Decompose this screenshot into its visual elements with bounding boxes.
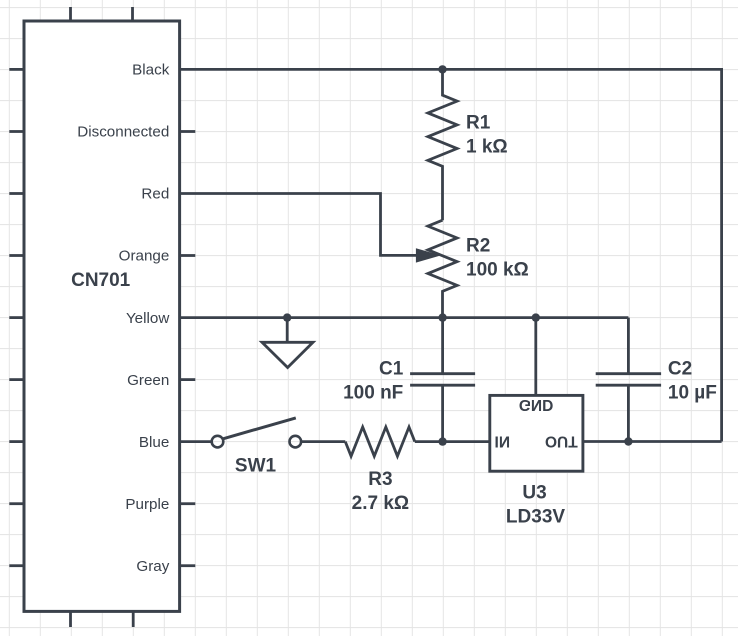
pin stub left Green — [9, 378, 24, 381]
pin stub left Disconnected — [9, 130, 24, 133]
wire Blue from connector to switch — [180, 440, 212, 443]
switch SW1 pole circle — [212, 436, 224, 448]
svg-text:R1: R1 — [466, 113, 491, 134]
svg-text:100 kΩ: 100 kΩ — [466, 260, 529, 281]
svg-text:U3: U3 — [522, 483, 546, 504]
pin stub left Orange — [9, 254, 24, 257]
svg-text:GND: GND — [519, 396, 553, 413]
pin stub left Yellow — [9, 316, 24, 319]
pin stub right Green — [180, 378, 196, 381]
wire R3 to U3 IN — [415, 440, 490, 443]
connector CN701 body — [24, 21, 180, 611]
wire U3 OUT to right side — [583, 440, 722, 443]
svg-text:IN: IN — [495, 433, 511, 450]
switch SW1 lever — [223, 418, 296, 439]
junction node on Black wire at R1 — [438, 65, 446, 73]
capacitor C1 plates — [410, 372, 475, 375]
svg-text:LD33V: LD33V — [506, 507, 565, 528]
svg-text:R3: R3 — [368, 469, 392, 490]
svg-text:Purple: Purple — [125, 496, 169, 513]
svg-text:Red: Red — [141, 186, 169, 203]
potentiometer R2 — [428, 220, 457, 317]
capacitor C2 top lead from yellow — [627, 318, 630, 373]
pin stub left Gray — [9, 564, 24, 567]
regulator U3 body — [490, 395, 583, 471]
junction node ground on Yellow wire — [283, 313, 291, 321]
capacitor C2 plates — [596, 372, 661, 375]
pin stub right Orange — [180, 254, 196, 257]
svg-text:1 kΩ: 1 kΩ — [466, 136, 508, 157]
junction node C1 on Yellow wire — [438, 313, 446, 321]
capacitor C1 top lead — [441, 318, 444, 373]
svg-text:Green: Green — [127, 372, 169, 389]
svg-text:OUT: OUT — [545, 433, 578, 450]
svg-text:Disconnected: Disconnected — [77, 124, 169, 141]
capacitor C2 bottom lead — [627, 386, 630, 441]
pin stub right Disconnected — [180, 130, 196, 133]
svg-text:SW1: SW1 — [235, 455, 277, 476]
pin stub top 2 — [131, 7, 134, 21]
svg-text:Orange: Orange — [119, 248, 170, 265]
junction node C2 on OUT wire — [624, 437, 632, 445]
ground stem — [286, 318, 289, 343]
junction node C1 on IN wire — [438, 437, 446, 445]
switch SW1 throw circle — [290, 436, 302, 448]
svg-text:R2: R2 — [466, 236, 490, 257]
svg-text:C2: C2 — [668, 359, 692, 380]
pin stub left Black — [9, 68, 24, 71]
pin stub right Gray — [180, 564, 196, 567]
svg-text:Gray: Gray — [136, 558, 169, 575]
pin stub left Blue — [9, 440, 24, 443]
svg-text:Blue: Blue — [139, 434, 169, 451]
svg-text:10 µF: 10 µF — [668, 383, 717, 404]
pin stub bottom 2 — [132, 611, 135, 627]
svg-text:100 nF: 100 nF — [343, 383, 403, 404]
pin stub left Red — [9, 192, 24, 195]
wire Black net top and right side — [180, 69, 722, 441]
regulator U3 GND pin stub — [534, 318, 537, 396]
pin stub top 1 — [69, 7, 72, 21]
svg-text:2.7 kΩ: 2.7 kΩ — [352, 493, 410, 514]
svg-text:Black: Black — [132, 62, 170, 79]
wire Yellow net — [180, 316, 629, 319]
capacitor C1 bottom lead — [441, 386, 444, 441]
resistor R3 — [345, 427, 415, 456]
svg-text:C1: C1 — [379, 359, 404, 380]
wire switch to R3 — [301, 440, 345, 443]
ground triangle — [262, 342, 313, 367]
svg-text:Yellow: Yellow — [126, 310, 169, 327]
pin stub right Purple — [180, 502, 196, 505]
resistor R1 — [428, 69, 457, 220]
wiper arrow of R2 — [416, 248, 441, 262]
svg-text:CN701: CN701 — [71, 270, 131, 291]
pin stub left Purple — [9, 502, 24, 505]
wire Red to potentiometer wiper — [180, 194, 419, 256]
pin stub bottom 1 — [69, 611, 72, 627]
junction node U3 GND on Yellow wire — [532, 313, 540, 321]
